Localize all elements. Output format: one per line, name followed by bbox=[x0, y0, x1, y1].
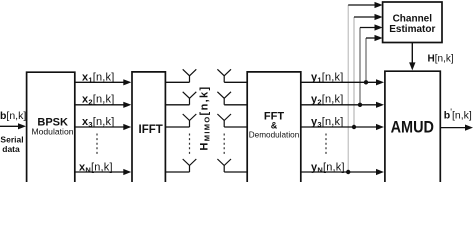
svg-text:xN[n,k]: xN[n,k] bbox=[79, 161, 113, 174]
svg-text:&: & bbox=[271, 121, 278, 131]
svg-text:data: data bbox=[2, 144, 20, 154]
svg-text:b'[n,k]: b'[n,k] bbox=[444, 107, 472, 121]
svg-text:x2[n,k]: x2[n,k] bbox=[82, 94, 115, 107]
svg-text:x3[n,k]: x3[n,k] bbox=[82, 116, 115, 129]
svg-text:AMUD: AMUD bbox=[391, 118, 434, 136]
svg-text:Modulation: Modulation bbox=[31, 127, 73, 137]
svg-text:Serial: Serial bbox=[0, 135, 23, 145]
svg-text:y2[n,k]: y2[n,k] bbox=[311, 94, 344, 107]
svg-text:yN[n,k]: yN[n,k] bbox=[311, 161, 345, 174]
svg-text:y1[n,k]: y1[n,k] bbox=[311, 71, 344, 84]
svg-text:IFFT: IFFT bbox=[139, 124, 163, 136]
svg-text:y3[n,k]: y3[n,k] bbox=[311, 116, 344, 129]
svg-text:Estimator: Estimator bbox=[389, 24, 435, 35]
svg-text:H[n,k]: H[n,k] bbox=[428, 54, 454, 65]
svg-text:Demodulation: Demodulation bbox=[249, 130, 300, 139]
svg-text:x1[n,k]: x1[n,k] bbox=[82, 71, 115, 84]
svg-text:b[n,k]: b[n,k] bbox=[0, 110, 26, 122]
